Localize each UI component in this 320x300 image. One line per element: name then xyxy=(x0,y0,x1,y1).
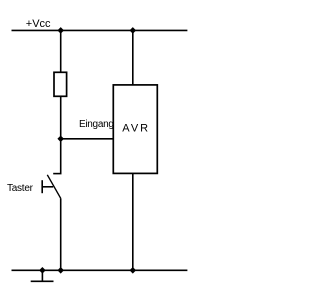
resistor R1 xyxy=(54,72,67,96)
svg-text:AVR: AVR xyxy=(122,123,150,135)
wire from +Vcc rail down to resistor xyxy=(60,30,62,72)
ground symbol bar xyxy=(31,280,54,282)
junction dot on +Vcc rail at left branch xyxy=(57,27,64,34)
wire from AVR bottom pin down to ground rail xyxy=(132,173,134,270)
svg-text:Eingang: Eingang xyxy=(79,119,114,130)
ground symbol stub xyxy=(41,270,43,281)
svg-text:+Vcc: +Vcc xyxy=(26,18,51,30)
wire from switch down to ground rail xyxy=(60,198,62,270)
op-amp U1 AVR box xyxy=(113,85,157,173)
wire ground rail xyxy=(12,269,188,271)
svg-text:Taster: Taster xyxy=(7,183,34,194)
junction dot on +Vcc rail at AVR branch xyxy=(130,27,137,34)
wire Eingang net to AVR input xyxy=(61,138,114,140)
switch S1 lever xyxy=(47,175,60,199)
switch S1 actuator bar xyxy=(41,180,43,193)
junction dot at Eingang branch xyxy=(57,136,64,143)
switch S1 top fixed contact xyxy=(53,173,61,175)
switch S1 actuator link xyxy=(42,186,53,188)
wire from resistor down to switch xyxy=(60,96,62,173)
junction dot on ground rail at switch branch xyxy=(57,267,64,274)
junction dot on ground rail at AVR branch xyxy=(130,267,137,274)
wire +Vcc top rail xyxy=(12,29,188,31)
wire from +Vcc rail down to AVR top pin xyxy=(132,30,134,85)
junction dot on ground rail at ground symbol xyxy=(39,267,46,274)
